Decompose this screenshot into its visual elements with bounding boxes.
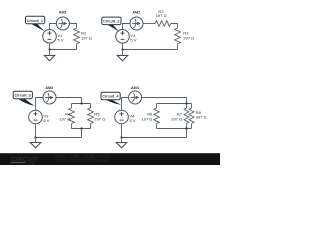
wire AM4 to parallel bank bbox=[142, 98, 187, 104]
svg-text:197 Ω: 197 Ω bbox=[59, 117, 70, 122]
wire bottom bar C4 bbox=[157, 128, 192, 130]
junction C4 ground node bbox=[120, 136, 122, 138]
wire R7 bottom stub bbox=[186, 124, 188, 129]
wire AM3 to parallel bank bbox=[56, 98, 82, 104]
resistor R1 bbox=[74, 28, 80, 44]
svg-text:Circuit_1: Circuit_1 bbox=[27, 19, 43, 23]
wire V2 top to AM2 bbox=[123, 24, 131, 30]
wire bottom bar C3 bbox=[72, 128, 91, 130]
svg-text:Circuit_3: Circuit_3 bbox=[15, 94, 31, 98]
wire V2 bottom bbox=[122, 43, 124, 49]
resistor R6 bbox=[154, 108, 159, 124]
resistor R8 bbox=[189, 108, 194, 124]
ground C1 bbox=[49, 50, 51, 56]
ammeter AM1 bbox=[56, 17, 69, 30]
svg-text:AM3: AM3 bbox=[45, 86, 53, 90]
svg-text:Circuit_2: Circuit_2 bbox=[103, 20, 119, 24]
wire R2 to R3 top bbox=[171, 24, 178, 29]
wire V1 top to AM1 bbox=[50, 24, 57, 30]
wire R6 top stub bbox=[156, 104, 158, 109]
callout Circuit_2 bbox=[108, 25, 120, 32]
wire bottom rail C1 bbox=[50, 49, 77, 51]
svg-text:5 V: 5 V bbox=[130, 38, 136, 43]
wire R3 bottom to rail bbox=[177, 44, 179, 50]
wire bank to rail C4 bbox=[186, 129, 188, 138]
wire AM1 to R1 top bbox=[69, 24, 77, 29]
wire V4 bottom bbox=[121, 124, 123, 138]
ammeter AM2 bbox=[130, 17, 143, 30]
wire R6 bottom stub bbox=[156, 124, 158, 129]
svg-text:197 Ω: 197 Ω bbox=[156, 13, 167, 18]
wire V4 top to AM4 bbox=[122, 98, 129, 111]
svg-text:297 Ω: 297 Ω bbox=[94, 117, 105, 122]
svg-text:LAB: LAB bbox=[27, 161, 35, 165]
wire R4 top stub bbox=[71, 104, 73, 109]
wire R5 bottom stub bbox=[90, 124, 92, 129]
footer bar bbox=[0, 153, 220, 165]
svg-text:AM2: AM2 bbox=[132, 11, 140, 15]
wire V3 bottom bbox=[35, 124, 37, 138]
junction C2 ground node bbox=[121, 48, 123, 50]
svg-text:197 Ω: 197 Ω bbox=[81, 35, 92, 40]
svg-text:397 Ω: 397 Ω bbox=[196, 115, 207, 120]
wire bottom rail C3 bbox=[36, 137, 82, 139]
wire R1 bottom to rail bbox=[76, 44, 78, 50]
wire R8 top stub bbox=[191, 104, 193, 109]
svg-text:Circuit_4: Circuit_4 bbox=[102, 95, 119, 99]
voltage source V3 bbox=[29, 110, 43, 124]
svg-text:297 Ω: 297 Ω bbox=[171, 117, 182, 122]
callout Circuit_3 bbox=[19, 99, 35, 106]
ground C2 bbox=[122, 50, 124, 56]
ammeter AM3 bbox=[43, 91, 56, 104]
callout Circuit_4 bbox=[106, 100, 122, 105]
svg-text:5 V: 5 V bbox=[43, 118, 49, 123]
wire top bar C3 bbox=[72, 103, 91, 105]
resistor R3 bbox=[175, 28, 181, 44]
wire bottom rail C4 bbox=[122, 137, 187, 139]
wire R4 bottom stub bbox=[71, 124, 73, 129]
wire V3 top to AM3 bbox=[36, 98, 44, 111]
wire top bar C4 bbox=[157, 103, 192, 105]
wire bank to rail C3 bbox=[81, 129, 83, 138]
junction C4 top bbox=[185, 102, 187, 104]
svg-text:http://circuitlab.com/c/5r3d99: http://circuitlab.com/c/5r3d994bew bbox=[55, 158, 108, 162]
svg-text:AM1: AM1 bbox=[59, 11, 67, 15]
junction C3 ground node bbox=[34, 136, 36, 138]
svg-text:197 Ω: 197 Ω bbox=[141, 117, 152, 122]
voltage source V2 bbox=[116, 30, 130, 44]
ground C3 bbox=[35, 138, 37, 143]
svg-text:297 Ω: 297 Ω bbox=[183, 35, 194, 40]
voltage source V1 bbox=[43, 30, 57, 44]
svg-text:AM4: AM4 bbox=[131, 86, 140, 90]
wire V1 bottom bbox=[49, 43, 51, 49]
callout Circuit_1 bbox=[31, 24, 45, 32]
wire R7 top stub bbox=[186, 104, 188, 109]
junction C1 ground node bbox=[48, 48, 50, 50]
ammeter AM4 bbox=[129, 91, 142, 104]
wire bottom rail C2 bbox=[123, 49, 178, 51]
junction C3 bottom bbox=[80, 127, 82, 129]
wire R8 bottom stub bbox=[191, 124, 193, 129]
resistor R4 bbox=[69, 108, 75, 124]
junction C3 top bbox=[80, 102, 82, 104]
resistor R5 bbox=[88, 108, 94, 124]
wire R5 top stub bbox=[90, 104, 92, 109]
junction C4 bottom bbox=[185, 127, 187, 129]
voltage source V4 bbox=[115, 110, 129, 124]
resistor R7 bbox=[184, 108, 189, 124]
svg-text:5 V: 5 V bbox=[57, 38, 63, 43]
ground C4 bbox=[121, 138, 123, 143]
wire AM2 to R2 bbox=[143, 23, 155, 25]
svg-text:5 V: 5 V bbox=[129, 118, 135, 123]
resistor R2 bbox=[155, 21, 171, 27]
